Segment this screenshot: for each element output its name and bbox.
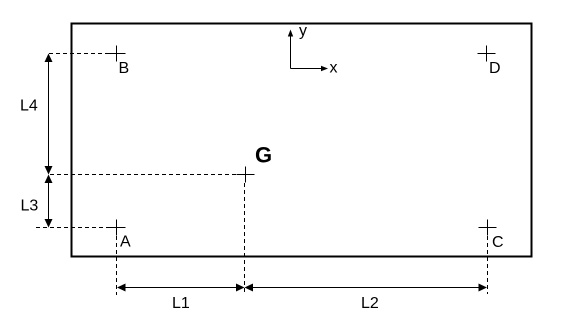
dimension L1 line bbox=[117, 284, 245, 292]
svg-text:C: C bbox=[492, 234, 504, 251]
svg-text:G: G bbox=[255, 143, 272, 168]
svg-text:A: A bbox=[120, 234, 131, 251]
dashed drop line below G bbox=[244, 183, 246, 295]
point B cross bbox=[108, 46, 126, 62]
dimension L3 line bbox=[45, 175, 53, 228]
svg-text:L1: L1 bbox=[172, 295, 190, 312]
dashed extension line at level B bbox=[49, 53, 111, 55]
dimension L2 line bbox=[245, 284, 488, 292]
svg-text:L2: L2 bbox=[361, 295, 379, 312]
svg-text:B: B bbox=[119, 60, 130, 77]
point A cross bbox=[108, 220, 126, 236]
svg-text:L4: L4 bbox=[20, 98, 38, 115]
svg-text:D: D bbox=[489, 60, 501, 77]
axis y bbox=[288, 30, 293, 69]
svg-text:L3: L3 bbox=[21, 198, 39, 215]
point G cross (center of gravity) bbox=[237, 167, 255, 183]
point D cross bbox=[478, 46, 496, 62]
dimension L4 line bbox=[45, 54, 53, 175]
axis x bbox=[291, 66, 329, 71]
dashed extension line at level G bbox=[50, 174, 240, 176]
rectangular plate outline bbox=[72, 24, 532, 257]
svg-text:y: y bbox=[299, 23, 307, 40]
dashed drop line below C bbox=[487, 236, 489, 294]
dashed drop line below A bbox=[116, 236, 118, 295]
point C cross bbox=[479, 220, 497, 236]
svg-text:x: x bbox=[330, 60, 338, 77]
dashed extension line at level A bbox=[36, 227, 111, 229]
